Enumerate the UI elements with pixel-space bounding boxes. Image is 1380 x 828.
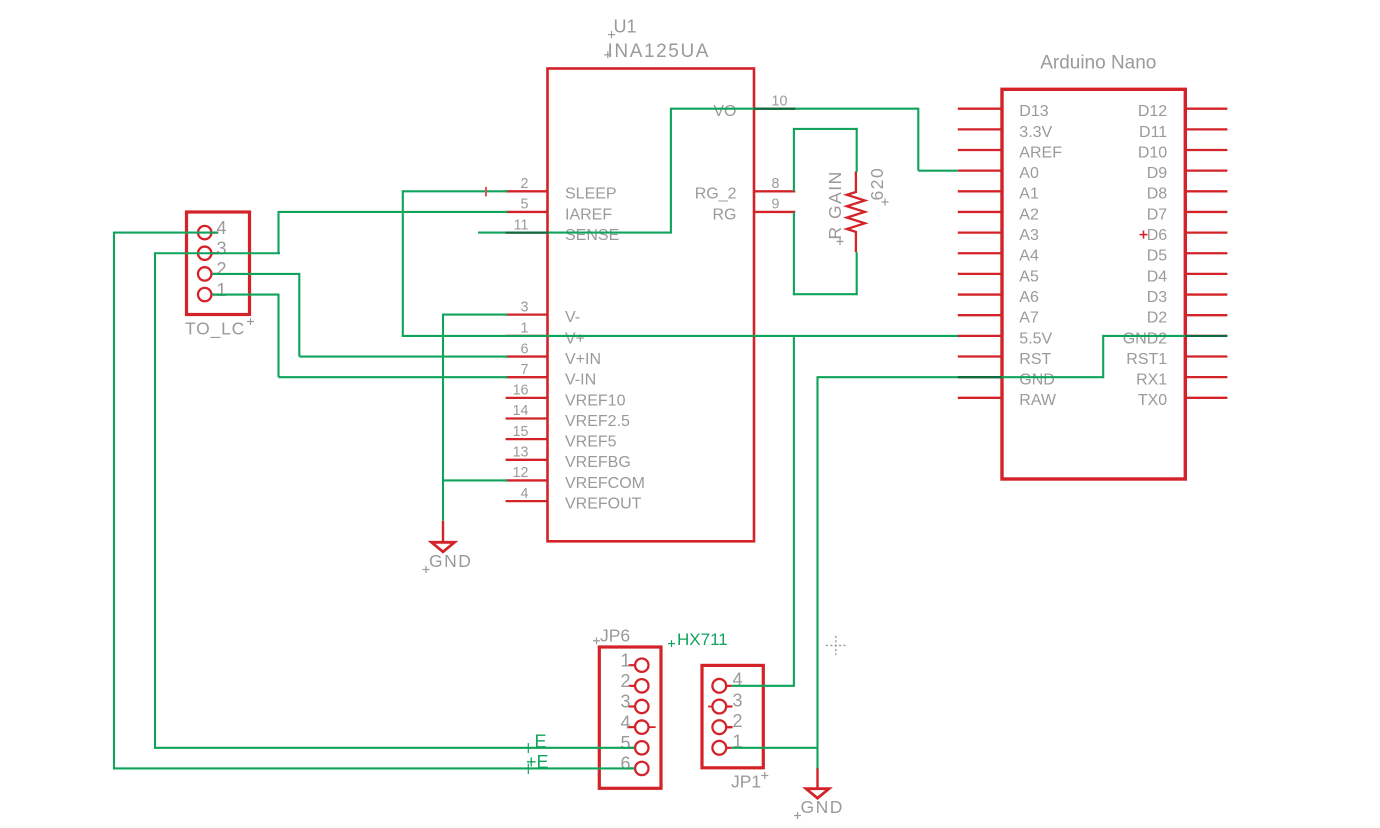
wire SENSE net (horiz at pin 11): [478, 232, 671, 234]
Arduino Nano pin D11: [1139, 124, 1227, 141]
svg-text:VREF5: VREF5: [565, 434, 617, 451]
svg-text:VREF2.5: VREF2.5: [565, 413, 630, 430]
Arduino Nano pin D7: [1147, 206, 1228, 223]
svg-text:12: 12: [513, 465, 529, 481]
svg-text:2: 2: [733, 711, 743, 731]
wire A0 net (horiz): [918, 170, 958, 172]
JP6 pin 4: [620, 712, 655, 734]
Arduino Nano pin D13: [958, 103, 1049, 120]
resistor R_GAIN 620: [847, 171, 865, 252]
Arduino Nano pin A1: [958, 186, 1039, 203]
label INA125UA: [604, 41, 710, 62]
wire TO_LC pin1 to V-IN (horiz): [212, 293, 279, 295]
svg-text:VO: VO: [713, 103, 736, 120]
svg-text:D9: D9: [1147, 165, 1168, 182]
svg-text:A6: A6: [1019, 289, 1039, 306]
svg-text:15: 15: [513, 424, 529, 440]
TO_LC pin 2: [198, 259, 227, 280]
svg-text:D12: D12: [1138, 103, 1167, 120]
wire V- to GND (vert): [442, 314, 444, 521]
TO_LC pin 1: [198, 280, 227, 301]
Arduino Nano pin A4: [958, 248, 1039, 265]
label R GAIN: [825, 170, 845, 245]
Arduino Nano pin A3: [958, 227, 1039, 244]
Arduino Nano pin GND: [958, 372, 1055, 389]
U1 pin 4 VREFOUT: [506, 486, 642, 513]
svg-text:620: 620: [867, 167, 887, 201]
JP1 pin 1: [712, 732, 742, 755]
Arduino Nano pin RST: [958, 351, 1052, 368]
wire R gain loop right vert upper: [856, 128, 858, 172]
U1 pin 5 IAREF: [506, 197, 613, 224]
Arduino Nano pin A0: [958, 165, 1039, 182]
Arduino Nano pin TX0: [1138, 392, 1228, 409]
wire GND vert to ground symbol: [816, 376, 818, 768]
svg-text:D13: D13: [1019, 103, 1048, 120]
connector JP1 body: [702, 665, 763, 767]
TO_LC pin 4: [198, 218, 227, 240]
label 620 value: [867, 167, 889, 206]
svg-text:4: 4: [217, 218, 227, 238]
JP1 pin 4: [712, 670, 742, 693]
svg-text:9: 9: [772, 197, 780, 213]
wire IAREF to TO_LC 3 (vert): [277, 211, 279, 253]
svg-text:2: 2: [217, 259, 227, 279]
svg-text:TX0: TX0: [1138, 392, 1167, 409]
svg-text:5: 5: [620, 733, 630, 753]
wire TO_LC pin4 row (horiz): [114, 232, 218, 234]
JP6 pin 6: [620, 754, 648, 776]
svg-text:D3: D3: [1147, 289, 1168, 306]
wire R gain loop bottom (horiz): [793, 293, 858, 295]
wire GND over pin stub (dark): [958, 376, 1002, 378]
svg-text:4: 4: [620, 712, 630, 732]
svg-text:V-IN: V-IN: [565, 372, 596, 389]
label Arduino Nano: [1040, 52, 1156, 73]
wire TO_LC pin2 to V+IN (vert): [298, 273, 300, 357]
Arduino Nano pin D12: [1138, 103, 1228, 120]
connector JP6 body: [599, 647, 661, 788]
wire RG loop left vert lower: [793, 212, 795, 295]
svg-text:JP6: JP6: [600, 626, 630, 646]
svg-text:14: 14: [513, 403, 529, 419]
wire GND2 row (horiz): [1103, 335, 1185, 337]
svg-text:GND: GND: [801, 797, 844, 817]
wire TO_LC pin1 to V-IN (vert): [277, 294, 279, 378]
label U1: [608, 16, 637, 38]
svg-text:A3: A3: [1019, 227, 1039, 244]
svg-text:2: 2: [620, 671, 630, 691]
wire R gain loop right vert lower: [856, 252, 858, 295]
Arduino Nano pin D9: [1147, 165, 1228, 182]
wire SLEEP to V+ (horiz at pin 2): [403, 190, 508, 192]
svg-text:4: 4: [521, 486, 529, 502]
wire R gain loop top (horiz): [793, 128, 858, 130]
U1 pin 15 VREF5: [506, 424, 617, 451]
svg-text:VREFCOM: VREFCOM: [565, 475, 645, 492]
svg-text:8: 8: [772, 176, 780, 192]
label HX711: [668, 630, 728, 649]
svg-text:SENSE: SENSE: [565, 227, 619, 244]
svg-text:D4: D4: [1147, 268, 1168, 285]
U1 pin 11 SENSE: [506, 217, 620, 244]
svg-text:RST: RST: [1019, 351, 1051, 368]
svg-text:3: 3: [620, 692, 630, 712]
svg-text:RG: RG: [713, 206, 737, 223]
svg-text:A5: A5: [1019, 268, 1039, 285]
wire VO to A0 (vert): [917, 108, 919, 171]
svg-text:Arduino Nano: Arduino Nano: [1040, 52, 1156, 73]
Arduino Nano pin D4: [1147, 268, 1228, 285]
TO_LC pin 3: [198, 238, 227, 260]
wire TO_LC pin3 row (horiz): [155, 252, 280, 254]
svg-text:V-: V-: [565, 309, 580, 326]
Arduino Nano pin D6: [1140, 227, 1228, 244]
wire V+ to JP1 pin4 (vert): [793, 336, 795, 687]
U1 pin 6 V+IN: [506, 341, 601, 368]
svg-text:GND: GND: [429, 551, 472, 571]
svg-text:TO_LC: TO_LC: [185, 318, 245, 339]
svg-text:D7: D7: [1147, 206, 1168, 223]
label JP1: [731, 771, 768, 791]
Arduino Nano pin 5.5V: [958, 330, 1053, 347]
wire V- net (horiz at pin 3): [443, 314, 508, 316]
U1 pin 16 VREF10: [506, 383, 626, 410]
U1 pin 3 V-: [506, 299, 581, 326]
svg-text:GND2: GND2: [1123, 330, 1168, 347]
Arduino Nano pin A6: [958, 289, 1039, 306]
connector TO_LC body: [187, 212, 250, 315]
svg-text:6: 6: [521, 341, 529, 357]
U1 pin 9 RG: [713, 197, 796, 224]
ground GND (bottom right): [794, 768, 844, 819]
wire SLEEP to V+ (vert): [402, 190, 404, 337]
JP6 pin 5: [620, 733, 648, 755]
svg-text:A7: A7: [1019, 310, 1039, 327]
svg-text:6: 6: [620, 754, 630, 774]
svg-text:D10: D10: [1138, 144, 1167, 161]
svg-text:D8: D8: [1147, 186, 1168, 203]
JP6 pin 2: [620, 671, 648, 693]
wire IAREF net (horiz at pin 5): [279, 211, 508, 213]
svg-text:V+IN: V+IN: [565, 351, 601, 368]
JP6 pin 3: [620, 692, 648, 714]
svg-text:RAW: RAW: [1019, 392, 1057, 409]
wire JP1 pin1 to GND (horiz): [732, 747, 819, 749]
svg-text:1: 1: [620, 650, 630, 670]
Arduino Nano pin RAW: [958, 392, 1057, 409]
Arduino Nano pin A2: [958, 206, 1039, 223]
wire TO_LC pin2 to V+IN (horiz): [212, 273, 299, 275]
svg-text:VREFOUT: VREFOUT: [565, 496, 642, 513]
svg-text:16: 16: [513, 383, 529, 399]
wire SENSE over pin stub (dark): [506, 232, 549, 234]
IC U1 INA125UA body: [548, 69, 755, 542]
Arduino Nano pin RST1: [1126, 351, 1227, 368]
svg-text:A2: A2: [1019, 206, 1039, 223]
JP6 pin 1: [620, 650, 648, 672]
svg-text:D11: D11: [1139, 124, 1167, 141]
svg-text:JP1: JP1: [731, 771, 761, 791]
svg-text:VREF10: VREF10: [565, 392, 626, 409]
wire V+IN net (horiz at pin 6): [299, 355, 507, 357]
U1 pin 7 V-IN: [506, 362, 597, 389]
wire JP6 pin6 +E net (horiz): [113, 767, 635, 769]
svg-text:RX1: RX1: [1136, 372, 1167, 389]
svg-text:RG_2: RG_2: [695, 186, 737, 203]
Arduino Nano pin A5: [958, 268, 1039, 285]
wire VREFCOM to GND (horiz at pin 12): [443, 479, 508, 481]
svg-text:13: 13: [513, 445, 529, 461]
sheet origin marker (dashed cross): [826, 636, 847, 655]
svg-text:3: 3: [217, 238, 227, 258]
svg-text:U1: U1: [614, 16, 637, 36]
svg-text:5.5V: 5.5V: [1019, 330, 1052, 347]
Arduino Nano pin D10: [1138, 144, 1228, 161]
svg-text:SLEEP: SLEEP: [565, 186, 617, 203]
label TO_LC: [185, 318, 254, 339]
wire GND net (horiz at Arduino GND): [818, 376, 1104, 378]
svg-text:R GAIN: R GAIN: [825, 170, 845, 239]
JP1 pin 3: [708, 690, 743, 713]
U1 pin 12 VREFCOM: [506, 465, 645, 492]
wire JP1 pin4 row (horiz): [732, 685, 794, 687]
U1 pin 1 V+: [506, 321, 585, 348]
Arduino Nano pin 3.3V: [958, 124, 1053, 141]
svg-text:IAREF: IAREF: [565, 206, 612, 223]
svg-text:GND: GND: [1019, 372, 1055, 389]
Arduino Nano pin RX1: [1136, 372, 1227, 389]
svg-text:7: 7: [521, 362, 529, 378]
svg-text:2: 2: [521, 176, 529, 192]
svg-text:3: 3: [521, 299, 529, 315]
svg-text:11: 11: [514, 217, 529, 233]
svg-text:INA125UA: INA125UA: [608, 41, 711, 62]
svg-text:5: 5: [521, 197, 529, 213]
svg-text:1: 1: [217, 280, 227, 300]
ground GND (below U1): [423, 521, 473, 573]
wire SENSE to VO (vert): [670, 108, 672, 234]
svg-text:HX711: HX711: [677, 630, 728, 649]
svg-text:D6: D6: [1147, 227, 1168, 244]
wire TO_LC 4 to JP6 6 (long vert): [113, 232, 115, 770]
label JP6: [593, 626, 630, 646]
Arduino Nano pin D8: [1147, 186, 1228, 203]
wire V+ 5.5V net (horiz): [402, 335, 958, 337]
module Arduino Nano body: [1002, 89, 1185, 479]
svg-text:VREFBG: VREFBG: [565, 454, 631, 471]
U1 pin 8 RG_2: [695, 176, 796, 203]
U1 pin 13 VREFBG: [506, 445, 631, 472]
U1 pin 2 SLEEP: [506, 176, 617, 203]
Arduino Nano pin D2: [1147, 310, 1228, 327]
wire TO_LC 3 to JP6 5 (long vert): [154, 252, 156, 749]
svg-text:10: 10: [772, 93, 788, 109]
Arduino Nano pin D5: [1147, 248, 1228, 265]
Arduino Nano pin GND2: [1123, 330, 1228, 347]
svg-text:3.3V: 3.3V: [1019, 124, 1052, 141]
svg-text:D5: D5: [1147, 248, 1168, 265]
Arduino Nano pin D3: [1147, 289, 1228, 306]
wire VO over pin stub (dark): [754, 108, 795, 110]
U1 pin 14 VREF2.5: [506, 403, 630, 430]
wire JP6 pin5 E net (horiz): [154, 747, 635, 749]
svg-text:D2: D2: [1147, 310, 1168, 327]
wire VO net (horiz at pin 10): [671, 108, 918, 110]
JP1 pin 2: [712, 711, 742, 734]
svg-text:3: 3: [733, 690, 743, 710]
svg-text:1: 1: [521, 321, 529, 337]
net label E: [526, 732, 547, 753]
wire GND2 jog (vert inside Nano): [1102, 335, 1104, 378]
svg-text:RST1: RST1: [1126, 351, 1167, 368]
Arduino Nano pin A7: [958, 310, 1039, 327]
svg-text:AREF: AREF: [1019, 144, 1062, 161]
junction marker on SLEEP wire: [485, 187, 487, 196]
U1 pin 10 VO: [713, 93, 795, 120]
wire RG_2 loop left vert upper: [793, 129, 795, 191]
wire GND2 over pin stub (dark): [1185, 335, 1227, 337]
wire V-IN net (horiz at pin 7): [279, 376, 508, 378]
svg-text:A0: A0: [1019, 165, 1039, 182]
Arduino Nano pin AREF: [958, 144, 1062, 161]
svg-text:V+: V+: [565, 330, 585, 347]
svg-text:A4: A4: [1019, 248, 1039, 265]
svg-text:A1: A1: [1019, 186, 1039, 203]
net label +E: [526, 752, 549, 774]
